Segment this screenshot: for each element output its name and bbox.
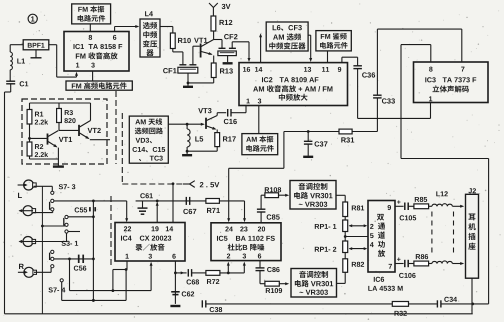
- wire C34 to right bus: [441, 303, 489, 306]
- component box FM detector parts (FM 鉴频电路元件): [316, 31, 351, 51]
- IC IC1 TA8158F: [64, 32, 129, 72]
- IC IC5 BA1102FS: [211, 223, 281, 261]
- wire FM-osc box to IC1 pin8: [89, 24, 91, 32]
- wire R1 leads: [29, 103, 31, 142]
- power 3V supply antenna symbol: [209, 3, 230, 16]
- wire IC5 pin3 arrow: [243, 262, 246, 273]
- capacitor C16: [224, 109, 237, 124]
- wire IC2 pin3 to AM-osc box: [258, 106, 260, 134]
- capacitor C55: [75, 207, 96, 212]
- resistor R109: [260, 281, 289, 293]
- wire R72 to IC5 pins: [220, 272, 244, 275]
- resistor R108: [261, 187, 289, 197]
- inductor L5: [187, 124, 203, 151]
- ceramic filter CF1: [163, 46, 200, 83]
- wire IC2 pin14 to AM IF box: [259, 33, 262, 62]
- wire AM box to VT3 base: [168, 123, 205, 126]
- capacitor C33: [373, 95, 395, 103]
- resistor R71: [206, 199, 220, 214]
- power 2.5V supply tap: [183, 181, 219, 188]
- ground under IC4 pin6: [170, 305, 180, 307]
- wire VT3 emitter to R17: [216, 130, 218, 133]
- wire VT1 emitter down: [57, 148, 59, 159]
- resistor R17: [215, 133, 236, 147]
- component box FM RF parts (FM 高频电路元件): [66, 81, 132, 90]
- switch S7-4: [49, 250, 66, 292]
- wire IC4 pin6 down: [174, 261, 177, 304]
- wire VT2 emitter out: [90, 139, 110, 141]
- wire BPF1 to IC1 pin1: [49, 45, 57, 77]
- wire rail to IC5 pin23: [243, 201, 246, 222]
- component box tone control lower (音调控制电路 VR301~VR303): [291, 269, 337, 298]
- component box dashed tape preamp enclosure: [22, 99, 107, 164]
- capacitor C86: [256, 261, 280, 284]
- wire right bus to headphone: [401, 159, 489, 304]
- wire IC6 pin9 out: [395, 200, 404, 206]
- wire C16 to IC2 pin1: [231, 106, 246, 113]
- resistor R3 820: [57, 109, 76, 124]
- wire L5/R17 bottom: [186, 147, 217, 153]
- wire jack to S7-3 contact: [33, 211, 53, 213]
- wire dashed transformer core: [432, 212, 454, 257]
- wire L12 to J2: [452, 205, 464, 208]
- switch S3-1: [62, 215, 80, 245]
- connector jack R playback: [18, 264, 37, 278]
- wire R31 to C33 node: [352, 131, 377, 133]
- wire R10 to CF1: [173, 49, 183, 65]
- connector jack record-L: [19, 206, 36, 216]
- capacitor C105: [400, 203, 417, 221]
- resistor R72: [206, 271, 220, 285]
- ground stub under BPF1: [31, 50, 42, 58]
- IC IC6 LA4533M: [368, 201, 395, 273]
- wire R82 to lower tone box: [337, 272, 346, 283]
- wire jack-R to contact: [34, 268, 51, 273]
- wire C36 to stereo bus: [357, 69, 359, 119]
- wire IC1 pin3 to FM-RF box: [92, 71, 94, 81]
- wire C33 to R31: [376, 98, 378, 132]
- wire AM IF box to IC2 pin13: [308, 35, 312, 62]
- component box AM local-osc parts (AM 本振电路元件): [242, 134, 278, 155]
- component box FM local-osc parts (FM 本振电路元件): [72, 4, 111, 24]
- wire C55 branch: [92, 201, 95, 218]
- capacitor C34: [437, 297, 457, 308]
- component box tone control upper (音调控制电路 VR301~VR303): [290, 181, 336, 210]
- wire rail to IC4 pin22: [125, 201, 128, 222]
- resistor R2 2.2k: [27, 142, 48, 157]
- IC IC4 CX20023: [115, 223, 185, 262]
- wire to J2 lower: [452, 262, 464, 265]
- switch S7-3: [50, 184, 76, 211]
- capacitor C85: [257, 195, 280, 223]
- wire L4 to R10: [160, 27, 173, 34]
- resistor R82: [343, 253, 364, 273]
- capacitor C37: [303, 130, 327, 157]
- ground under CF2: [223, 62, 233, 64]
- component box L4 IF transformer (选频中频变压器): [140, 11, 160, 57]
- resistor R86: [408, 254, 428, 266]
- wire play head line: [70, 259, 152, 292]
- inductor L1: [10, 52, 25, 70]
- wire L1 to C1: [9, 70, 11, 81]
- resistor R85: [408, 197, 428, 209]
- potentiometer RP1-1: [315, 217, 368, 232]
- wire IC3 pin1 to bus: [430, 103, 432, 119]
- wire VT2 collector: [90, 103, 92, 121]
- capacitor C61: [138, 193, 153, 214]
- wire IC4 pin19 to rail: [156, 202, 159, 223]
- potentiometer RP1-2: [315, 241, 368, 253]
- resistor R10: [170, 33, 190, 49]
- wire CF2 to IC2 pin16: [248, 42, 251, 62]
- wire audio return line: [206, 303, 392, 305]
- wire R3 leads: [59, 103, 78, 130]
- wire VT1 collector node: [214, 31, 222, 48]
- resistor R1 2.2k: [27, 110, 48, 125]
- wire antenna to BPF1: [10, 45, 23, 52]
- resistor R12: [211, 16, 232, 31]
- wire preamp top rail: [30, 102, 91, 104]
- wire long tape bus: [92, 217, 95, 302]
- wire FM-det box to IC2 pin11: [327, 51, 329, 63]
- switch S7-4 second pole: [60, 279, 63, 282]
- connector J2 headphone jack (耳机插座): [466, 188, 479, 278]
- wire C1 to bottom return: [5, 84, 11, 314]
- wire IC5 pin2 arrow: [227, 262, 230, 273]
- wire IC6 pin7 out: [395, 258, 404, 264]
- wire R2 bottom rail: [30, 156, 59, 159]
- capacitor C67: [183, 197, 196, 214]
- wire input to IC1 pin1: [57, 72, 78, 77]
- capacitor C56: [54, 255, 94, 271]
- wire main audio rail right segment: [136, 200, 245, 203]
- capacitor C38: [202, 300, 222, 312]
- ground under preamp: [53, 159, 64, 167]
- component box L6 CF3 AM IF transformer (AM 选频中频变压器): [266, 22, 308, 51]
- ground under CF1: [183, 83, 193, 87]
- wire VT1 emitter to R13: [213, 56, 215, 64]
- wire dashed tape boundary: [110, 196, 112, 265]
- resistor R31: [339, 129, 354, 142]
- transistor VT3: [198, 108, 217, 130]
- wire main audio rail left segment: [54, 200, 127, 203]
- connector jack L playback: [18, 180, 37, 198]
- wire J2 to ground return: [471, 278, 473, 314]
- node circled-1 marker: [28, 14, 37, 23]
- wire R32 to C34: [409, 303, 437, 305]
- resistor R32: [392, 302, 408, 316]
- wire to IC4 pin3: [150, 262, 153, 291]
- wire jack ground bus: [41, 186, 44, 313]
- wire IC1 pin6 to L4: [115, 25, 140, 32]
- wire top loop IC3 pin7: [377, 29, 461, 95]
- capacitor C68: [175, 269, 206, 284]
- wire rail to IC5 pin24: [227, 168, 284, 222]
- wire jack-L to S7-3: [34, 186, 53, 191]
- wire stereo bus: [358, 117, 431, 119]
- wire ground bus to S3-1: [42, 225, 65, 226]
- wire pot junction to IC6 pin5: [344, 232, 368, 242]
- transistor VT1: [194, 38, 214, 58]
- connector jack record-R: [19, 237, 36, 247]
- wire bottom ground return: [5, 313, 473, 315]
- capacitor C1: [6, 81, 28, 86]
- inductor L13 headphone: [429, 261, 453, 264]
- inductor L12: [429, 191, 453, 206]
- wire IC2 pin9 to C36: [342, 57, 358, 66]
- component BPF1 band pass filter: [23, 40, 49, 50]
- resistor R81: [343, 202, 364, 217]
- wire dashed boundary to 2.5V rail: [122, 113, 183, 184]
- wire R1-R2 node to VT1 base: [28, 137, 47, 140]
- wire S3-1 to tape bus: [68, 216, 93, 218]
- wire record head bus: [62, 270, 126, 302]
- capacitor C106: [399, 260, 416, 278]
- ground under L5: [182, 151, 192, 155]
- ceramic filter CF2: [218, 34, 249, 62]
- capacitor C36: [353, 66, 375, 78]
- wire tone box to R81: [336, 195, 345, 202]
- label IC6 LA4533M: [368, 277, 402, 291]
- IC IC3 TA7373F: [414, 62, 489, 103]
- transistor VT1 tape preamp: [48, 131, 73, 148]
- wire dashed FM/AM boundary: [115, 91, 117, 164]
- wire IC3 pin8 feed: [401, 45, 431, 159]
- wire jack to S3-1: [33, 233, 67, 241]
- wire VT3 collector to C16: [217, 113, 226, 116]
- resistor R13: [211, 63, 233, 78]
- transistor VT2 tape preamp: [79, 121, 101, 140]
- capacitor C62: [171, 291, 194, 296]
- wire audio takeoff rail: [284, 132, 339, 169]
- IC IC2 TA8109AF: [239, 63, 348, 106]
- component box AM antenna tuning (AM 天线选频回路): [129, 116, 168, 163]
- wire IC4 pin1 link: [113, 261, 128, 291]
- wire R13 to ground: [187, 78, 214, 85]
- wire IC4 pin14 to 2.5V: [172, 182, 175, 222]
